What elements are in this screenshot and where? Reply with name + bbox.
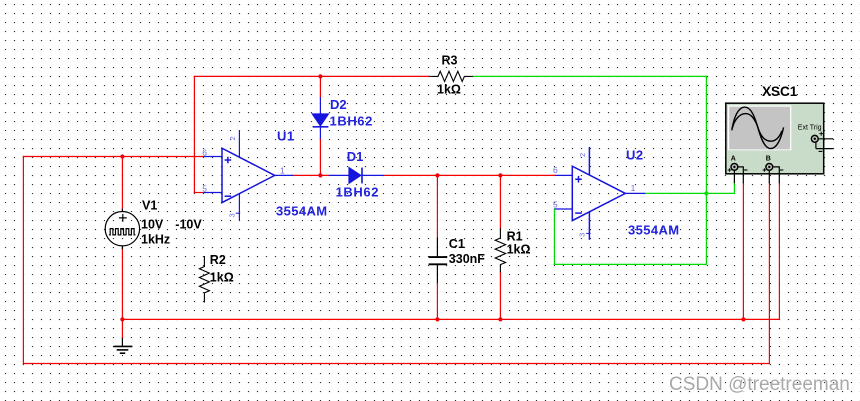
pin labels U2 [553,153,636,237]
svg-text:2: 2 [228,136,237,140]
svg-text:1kΩ: 1kΩ [210,270,234,284]
value label V1 [141,199,202,247]
terminal A [728,156,748,184]
junction [498,317,502,321]
junction [318,74,322,78]
wire [768,183,770,364]
svg-text:6: 6 [553,165,558,175]
ext trig terminal [811,132,833,152]
junction green [704,191,708,195]
diode D1 [329,168,385,184]
resistor R3 [429,71,472,81]
svg-text:2: 2 [578,153,587,157]
wire [319,76,321,97]
label C1 [449,237,485,266]
junction [120,317,124,321]
svg-text:5: 5 [553,200,558,210]
wire [733,183,735,193]
wire [554,263,706,265]
svg-text:3554AM: 3554AM [628,222,680,237]
oscilloscope XSC1 [726,84,834,183]
label U2 [626,148,680,238]
label U1 [276,129,328,219]
resistor R2 [199,256,209,303]
junction [435,317,439,321]
capacitor C1 [429,238,448,283]
svg-text:1kΩ: 1kΩ [437,83,461,97]
label R3 [437,53,461,96]
svg-text:D1: D1 [347,149,364,164]
wire [293,174,329,176]
svg-text:R1: R1 [507,229,523,243]
label D2 [330,97,373,129]
svg-text:1kHz: 1kHz [141,232,170,246]
svg-text:A: A [731,156,736,163]
wire [553,209,555,264]
junction [120,154,124,158]
svg-text:3554AM: 3554AM [276,204,328,219]
svg-text:6: 6 [202,148,207,158]
wire [742,183,744,319]
svg-text:5: 5 [202,183,207,193]
wire [319,139,321,175]
wire [499,175,501,228]
svg-text:1: 1 [280,165,285,175]
wire [23,156,203,158]
wire [122,318,779,320]
wire [194,75,429,77]
wire [121,157,123,211]
op-amp U1 [204,131,293,221]
label R2 [210,253,234,284]
svg-text:3: 3 [228,213,237,217]
svg-text:CSDN @treetreeman: CSDN @treetreeman [669,374,850,395]
svg-text:3: 3 [578,233,587,237]
pin labels U1 [202,136,285,217]
wire [705,76,707,264]
svg-text:1BH62: 1BH62 [336,185,379,200]
svg-text:1kΩ: 1kΩ [507,243,531,257]
svg-text:-10V: -10V [175,218,202,232]
svg-text:U2: U2 [626,148,644,163]
scope waveform [732,107,784,149]
wire [645,192,734,194]
op-amp U2 [554,147,645,240]
wire [121,249,123,320]
label R1 [507,229,531,256]
svg-text:B: B [766,156,771,163]
wire [194,192,203,194]
wire [436,175,438,237]
scope waveform 2 [732,114,782,142]
wire [778,183,780,319]
resistor R1 [495,228,505,272]
wire [436,283,438,320]
wire [22,157,24,364]
svg-text:XSC1: XSC1 [762,84,798,99]
svg-text:10V: 10V [141,218,164,232]
wire [499,272,501,319]
wire [473,75,707,77]
ground [114,338,133,353]
label D1 [336,149,379,200]
svg-text:330nF: 330nF [449,252,485,266]
junction [435,173,439,177]
wire [121,319,123,338]
wire [384,174,555,176]
svg-text:1: 1 [631,183,636,193]
svg-text:1BH62: 1BH62 [330,114,373,129]
wire [23,363,769,365]
junction [318,173,322,177]
svg-text:R3: R3 [442,53,458,67]
junction [498,173,502,177]
svg-text:D2: D2 [330,97,347,112]
terminal B [763,156,784,184]
svg-text:C1: C1 [449,237,465,251]
svg-text:R2: R2 [210,253,226,267]
watermark [669,374,851,396]
svg-text:V1: V1 [142,199,157,213]
svg-text:Ext Trig: Ext Trig [798,125,822,132]
junction [741,317,745,321]
svg-text:U1: U1 [277,129,295,144]
wire [193,76,195,192]
voltage source V1 [105,209,139,249]
diode D2 [312,97,328,139]
